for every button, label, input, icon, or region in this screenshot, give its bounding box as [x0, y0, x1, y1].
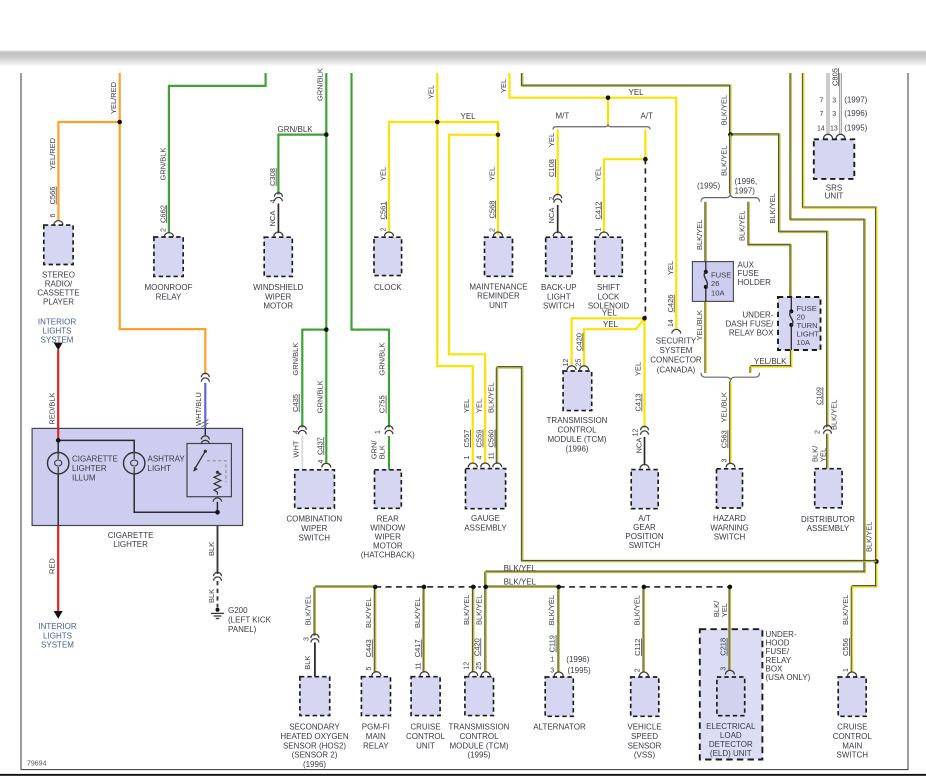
svg-text:YEL: YEL	[461, 112, 477, 121]
svg-text:BLK: BLK	[378, 445, 387, 459]
svg-text:C420: C420	[575, 333, 584, 351]
svg-text:LIGHT: LIGHT	[148, 464, 172, 473]
svg-text:ALTERNATOR: ALTERNATOR	[533, 723, 586, 732]
svg-text:(1996): (1996)	[565, 444, 588, 453]
svg-text:2: 2	[549, 197, 556, 201]
svg-text:BLK/YEL: BLK/YEL	[830, 400, 839, 430]
fuse 20 element	[789, 309, 793, 313]
svg-text:NCA: NCA	[547, 208, 556, 224]
svg-text:MOTOR: MOTOR	[263, 302, 293, 311]
svg-text:MODULE (TCM): MODULE (TCM)	[547, 435, 606, 444]
svg-text:NCA: NCA	[268, 211, 277, 227]
ground G200	[216, 608, 220, 612]
svg-text:HAZARD: HAZARD	[713, 514, 746, 523]
component stereo radio cassette player	[44, 225, 73, 264]
svg-text:BLK: BLK	[207, 542, 216, 556]
wire YEL branch to clock and maintenance reminder	[389, 122, 498, 235]
svg-text:C108: C108	[547, 159, 556, 177]
node junction YEL at clock trunk	[435, 120, 440, 125]
svg-text:BLK/YEL: BLK/YEL	[462, 595, 471, 625]
svg-text:ASSEMBLY: ASSEMBLY	[464, 523, 507, 532]
svg-text:WINDOW: WINDOW	[370, 524, 406, 533]
svg-text:MOTOR: MOTOR	[373, 542, 403, 551]
svg-text:C563: C563	[720, 430, 729, 448]
component under-hood fuse relay box (USA only)	[700, 629, 763, 759]
svg-text:BLK/YEL: BLK/YEL	[695, 220, 704, 250]
wire YEL main trunk upper right	[510, 73, 677, 329]
wire BLK cigarette lighter ground	[217, 526, 219, 575]
svg-text:7: 7	[820, 97, 824, 104]
svg-text:(1995): (1995)	[568, 666, 591, 675]
svg-text:C412: C412	[593, 202, 602, 220]
svg-text:BLK/YEL: BLK/YEL	[487, 383, 496, 413]
svg-text:INTERIOR: INTERIOR	[38, 622, 76, 631]
svg-text:3: 3	[832, 97, 836, 104]
connector C420 TCM 1995 pins	[469, 672, 478, 676]
wire BLK lamp bus inside box	[57, 440, 59, 452]
svg-text:GRN/BLK: GRN/BLK	[316, 68, 325, 101]
svg-text:C413: C413	[634, 394, 643, 412]
svg-text:VEHICLE: VEHICLE	[627, 723, 661, 732]
wire dashed bus segment 4	[644, 586, 730, 588]
svg-text:SWITCH: SWITCH	[714, 533, 746, 542]
svg-text:BLK: BLK	[207, 589, 216, 603]
svg-text:SHIFT: SHIFT	[597, 283, 620, 292]
svg-text:YEL: YEL	[487, 167, 496, 181]
wire BLK/YEL right trunk 1 to cruise main switch	[803, 73, 876, 562]
svg-text:BLK/YEL: BLK/YEL	[413, 598, 422, 628]
svg-text:SENSOR (HOS2): SENSOR (HOS2)	[283, 741, 346, 750]
svg-text:GRN/BLK: GRN/BLK	[378, 343, 387, 376]
svg-text:C437: C437	[315, 437, 324, 455]
svg-text:PGM-FI: PGM-FI	[362, 723, 390, 732]
svg-text:YEL/BLK: YEL/BLK	[720, 392, 729, 422]
wire WHT combination wiper switch pin 4	[301, 436, 303, 470]
brace M/T A/T	[553, 124, 650, 130]
svg-text:GRN/BLK: GRN/BLK	[158, 148, 167, 181]
svg-text:REMINDER: REMINDER	[477, 292, 520, 301]
svg-text:WIPER: WIPER	[265, 292, 291, 301]
svg-text:DISTRIBUTOR: DISTRIBUTOR	[801, 515, 855, 524]
svg-text:C662: C662	[158, 205, 167, 223]
node junction YEL A/T branch	[643, 157, 648, 162]
wire YEL to TCM 1996 pin 25	[584, 318, 644, 366]
svg-text:CASSETTE: CASSETTE	[37, 289, 79, 298]
svg-text:C566: C566	[48, 187, 57, 205]
svg-text:YEL: YEL	[602, 309, 618, 318]
wire YEL to TCM 1996 pin 12	[572, 318, 645, 366]
svg-text:BLK/YEL: BLK/YEL	[504, 578, 537, 587]
svg-text:C556: C556	[841, 638, 850, 656]
svg-text:WHT/BLU: WHT/BLU	[194, 392, 203, 426]
node junction YEL trunk	[606, 95, 611, 100]
wire GRN/BLK trunk 2 to rear window wiper motor	[352, 73, 390, 428]
wire GRN/BLK rear window wiper motor pin 1	[388, 436, 390, 470]
wire BLK/YEL drop ELD unit	[729, 587, 731, 671]
svg-text:RED/BLK: RED/BLK	[48, 392, 57, 424]
wire BLK secondary HOS2 pin 3	[314, 643, 316, 677]
wire YEL A/T branch	[644, 130, 646, 160]
svg-text:YEL: YEL	[378, 167, 387, 181]
component aux fuse holder box	[692, 262, 733, 302]
lamp cigarette lighter illumination	[48, 453, 69, 474]
component vehicle speed sensor	[631, 677, 659, 716]
svg-text:ASHTRAY: ASHTRAY	[148, 455, 186, 464]
svg-text:LIGHT: LIGHT	[547, 292, 571, 301]
component secondary heated oxygen sensor	[300, 677, 330, 716]
svg-text:13: 13	[830, 125, 838, 132]
svg-text:2: 2	[160, 228, 167, 232]
svg-text:C561: C561	[378, 202, 387, 220]
wire BLK/YEL top trunk	[522, 73, 730, 135]
svg-text:1: 1	[375, 430, 382, 434]
connector C417 cruise unit pin	[420, 672, 429, 676]
svg-text:YEL: YEL	[499, 79, 508, 93]
wire BLK/YEL gauge pin 11 run	[497, 368, 876, 562]
svg-text:3: 3	[550, 667, 554, 674]
wire BLK/YEL to distributor assembly	[730, 135, 827, 428]
svg-text:RELAY: RELAY	[363, 741, 389, 750]
svg-text:MODULE (TCM): MODULE (TCM)	[449, 741, 508, 750]
svg-text:M/T: M/T	[556, 111, 570, 120]
svg-text:LOAD: LOAD	[720, 731, 742, 740]
wire dashed bus segment 3	[559, 586, 644, 588]
svg-text:YEL: YEL	[819, 448, 828, 462]
svg-text:BLK/YEL: BLK/YEL	[720, 95, 729, 125]
svg-text:BLK/YEL: BLK/YEL	[865, 522, 874, 552]
svg-text:(1996): (1996)	[844, 109, 867, 118]
node bus junction	[373, 585, 378, 590]
svg-text:YEL/BLK: YEL/BLK	[754, 357, 787, 366]
connector C566 stereo	[54, 221, 63, 225]
component clock	[374, 237, 402, 275]
wire crossing ticks on WHT/BLU	[202, 420, 209, 428]
svg-text:COMBINATION: COMBINATION	[286, 515, 342, 524]
svg-text:ASSEMBLY: ASSEMBLY	[807, 524, 850, 533]
svg-text:WIPER: WIPER	[375, 533, 401, 542]
svg-text:C218: C218	[719, 638, 728, 656]
svg-text:YEL: YEL	[720, 603, 729, 617]
component A/T gear position switch	[631, 470, 658, 509]
node junction YEL/RED	[117, 120, 122, 125]
wire BLK/YEL drop vehicle speed sensor	[643, 587, 645, 673]
svg-text:NCA: NCA	[634, 438, 643, 454]
arrow to interior lights system (top)	[54, 343, 63, 351]
svg-text:BLK/YEL: BLK/YEL	[474, 595, 483, 625]
svg-text:YEL: YEL	[593, 167, 602, 181]
svg-text:C435: C435	[291, 394, 300, 412]
top toolbar shadow band	[0, 51, 926, 67]
wire BLK/YEL bus solid left	[315, 586, 375, 588]
wire YEL to A/T gear position switch C413	[643, 318, 645, 428]
fuse 26 element	[704, 270, 708, 274]
connector C426 security connector end	[672, 329, 681, 333]
svg-text:MAINTENANCE: MAINTENANCE	[469, 282, 527, 291]
svg-text:11: 11	[416, 662, 423, 669]
wire RED inside cigarette lighter box	[57, 428, 59, 440]
wire BLK/YEL cruise main drop	[852, 562, 876, 673]
wire to ground junction	[216, 502, 218, 513]
connector at lighter element bottom	[213, 498, 222, 502]
svg-text:C560: C560	[487, 430, 496, 448]
svg-text:STEREO: STEREO	[42, 271, 75, 280]
component cruise control main switch	[838, 677, 866, 716]
svg-text:14: 14	[668, 319, 675, 327]
svg-text:(1995): (1995)	[467, 751, 490, 760]
svg-text:(VSS): (VSS)	[634, 751, 656, 760]
svg-text:3: 3	[832, 111, 836, 118]
svg-text:CRUISE: CRUISE	[410, 723, 440, 732]
connector C556 cruise main pin	[848, 672, 857, 676]
connector C412 shift lock	[600, 232, 609, 236]
connector C443 PGM-FI pin	[372, 672, 381, 676]
svg-text:INTERIOR: INTERIOR	[38, 318, 76, 327]
node bus junction	[556, 585, 561, 590]
node junction BLK/YEL	[728, 132, 733, 137]
svg-text:YEL: YEL	[629, 88, 645, 97]
node bus junction	[642, 585, 647, 590]
connector C662 moonroof	[164, 233, 173, 237]
svg-text:BLK/YEL: BLK/YEL	[768, 193, 777, 223]
svg-text:LIGHTS: LIGHTS	[43, 326, 72, 335]
component back-up light switch	[546, 237, 572, 276]
svg-text:SECURITY: SECURITY	[656, 336, 697, 345]
connector C437 combination wiper pin	[322, 463, 331, 467]
svg-text:25: 25	[476, 662, 483, 670]
wire YEL M/T branch to back-up light switch C108	[557, 130, 559, 197]
component cigarette lighter box	[32, 428, 243, 525]
svg-text:79694: 79694	[27, 761, 47, 768]
svg-text:WIPER: WIPER	[301, 524, 327, 533]
node junction RED/BLK lamp bus	[56, 438, 61, 443]
svg-text:10A: 10A	[711, 288, 725, 297]
component rear window wiper motor	[375, 470, 402, 509]
svg-text:11: 11	[489, 452, 496, 459]
svg-text:(HATCHBACK): (HATCHBACK)	[361, 551, 415, 560]
wire GRN/BLK branch to windshield wiper motor connector C308	[278, 135, 326, 195]
svg-text:4: 4	[477, 456, 484, 460]
svg-text:1: 1	[595, 228, 602, 232]
svg-text:(1996,: (1996,	[735, 177, 758, 186]
svg-text:LOCK: LOCK	[598, 292, 620, 301]
connector C435 inline	[298, 426, 306, 430]
connector C218 ELD pin	[725, 670, 734, 674]
svg-text:A/T: A/T	[641, 111, 654, 120]
node bus junction	[728, 585, 733, 590]
svg-text:YEL: YEL	[462, 399, 471, 413]
component cruise control unit	[411, 677, 440, 716]
component PGM-FI main relay	[361, 677, 390, 716]
svg-text:CIGARETTE: CIGARETTE	[72, 455, 118, 464]
wire BLK/YEL bus to secondary HOS2	[314, 587, 316, 636]
svg-text:LIGHTER: LIGHTER	[72, 464, 107, 473]
svg-text:CONTROL: CONTROL	[833, 732, 873, 741]
svg-text:2: 2	[489, 228, 496, 232]
svg-text:(USA ONLY): (USA ONLY)	[766, 673, 811, 682]
svg-text:BLK/YEL: BLK/YEL	[364, 598, 373, 628]
wire BLK/YEL drop alternator	[558, 587, 560, 673]
svg-text:2: 2	[380, 228, 387, 232]
connector C420 TCM 1996 pins	[567, 366, 576, 370]
svg-text:C559: C559	[475, 430, 484, 448]
svg-text:BACK-UP: BACK-UP	[541, 283, 577, 292]
svg-text:(LEFT KICK: (LEFT KICK	[228, 615, 272, 624]
svg-text:SYSTEM: SYSTEM	[41, 641, 74, 650]
wire dashed bus segment 1	[375, 586, 473, 588]
wire YEL/BLK to hazard warning switch	[729, 382, 731, 464]
connector back-up pin	[553, 232, 562, 236]
wire BLK/YEL drop cruise control unit	[423, 587, 425, 673]
svg-text:GEAR: GEAR	[633, 523, 656, 532]
svg-text:YEL: YEL	[666, 261, 675, 275]
svg-text:GAUGE: GAUGE	[471, 514, 500, 523]
connector C119 alternator pin	[554, 672, 563, 676]
arrow to interior lights system (bottom)	[54, 611, 63, 619]
svg-text:GRN/BLK: GRN/BLK	[315, 380, 324, 413]
node junction YEL at maintenance drop	[496, 133, 501, 138]
wire BLK/YEL 1996-1997 branch to fuse 20	[749, 202, 791, 297]
connector BLK inline above G200	[214, 572, 222, 576]
svg-text:2: 2	[635, 668, 642, 672]
svg-text:3: 3	[721, 667, 728, 671]
svg-text:26: 26	[711, 279, 719, 288]
svg-text:6: 6	[50, 214, 57, 218]
svg-text:SPEED: SPEED	[631, 732, 658, 741]
svg-text:C755: C755	[378, 395, 387, 413]
svg-text:YEL: YEL	[603, 320, 619, 329]
connector A/T gear pin	[640, 464, 649, 468]
svg-text:MOONROOF: MOONROOF	[145, 283, 193, 292]
svg-text:12: 12	[632, 429, 639, 437]
svg-text:4: 4	[270, 199, 277, 203]
svg-text:GRN/BLK: GRN/BLK	[278, 125, 314, 134]
node bus junction	[483, 585, 488, 590]
connector gauge pins 1,4,11	[468, 463, 477, 467]
svg-text:C557: C557	[462, 430, 471, 448]
svg-text:ELECTRICAL: ELECTRICAL	[706, 722, 756, 731]
svg-text:YEL/BLK: YEL/BLK	[695, 310, 704, 340]
svg-text:RADIO/: RADIO/	[45, 280, 73, 289]
connector C568 maintenance	[494, 232, 503, 236]
connector HOS2 inline	[311, 634, 319, 638]
svg-text:CIGARETTE: CIGARETTE	[108, 531, 154, 540]
svg-text:PANEL): PANEL)	[228, 625, 257, 634]
component windshield wiper motor	[264, 237, 292, 276]
connector C308 inline	[274, 193, 282, 197]
svg-text:YEL: YEL	[427, 85, 436, 99]
component hazard warning switch	[717, 469, 743, 508]
svg-text:5: 5	[366, 667, 373, 671]
component maintenance reminder unit	[485, 237, 513, 276]
svg-text:(SENSOR 2): (SENSOR 2)	[292, 751, 338, 760]
svg-text:WINDSHIELD: WINDSHIELD	[253, 283, 303, 292]
svg-text:BLK/YEL: BLK/YEL	[720, 146, 729, 176]
svg-text:WARNING: WARNING	[710, 523, 748, 532]
connector C108 inline	[554, 194, 562, 198]
wire through fuse 26	[705, 262, 707, 272]
wire RED/BLK interior lights to cigarette lighter	[57, 350, 59, 441]
svg-text:LIGHTS: LIGHTS	[43, 631, 72, 640]
wire NCA back-up light switch	[557, 205, 559, 233]
svg-text:1: 1	[843, 668, 850, 672]
svg-text:HOLDER: HOLDER	[738, 278, 772, 287]
wire BLK/YEL drop to year brace	[729, 135, 731, 194]
wire GRN/BLK trunk 1 (windshield wiper / combination wiper)	[325, 73, 327, 464]
svg-text:UNIT: UNIT	[825, 192, 844, 201]
wire BLK/YEL drop TCM 1995 pin 12	[472, 587, 474, 673]
connector C109 inline	[824, 425, 832, 429]
node junction BLK/YEL right	[874, 559, 879, 564]
svg-text:(1997): (1997)	[844, 96, 867, 105]
svg-text:SWITCH: SWITCH	[299, 533, 331, 542]
wire WHT SRS pin 14	[827, 73, 830, 134]
svg-text:12: 12	[464, 662, 471, 670]
svg-text:BLK/YEL: BLK/YEL	[841, 595, 850, 625]
svg-text:POSITION: POSITION	[625, 532, 663, 541]
wire through fuse 20	[790, 297, 792, 311]
wire GRN/BLK moonroof relay	[169, 73, 266, 233]
lamp ashtray light	[124, 453, 145, 474]
svg-text:1997): 1997)	[735, 187, 756, 196]
svg-text:SWITCH: SWITCH	[629, 541, 661, 550]
svg-text:4: 4	[318, 460, 325, 464]
svg-text:SECONDARY: SECONDARY	[289, 723, 340, 732]
svg-text:BLK/YEL: BLK/YEL	[738, 211, 747, 241]
node bus junction	[422, 585, 427, 590]
connector C112 VSS pin	[639, 672, 648, 676]
svg-text:A/T: A/T	[638, 514, 651, 523]
wire NCA A/T gear position switch	[644, 437, 646, 465]
svg-text:(ELD) UNIT: (ELD) UNIT	[710, 749, 752, 758]
svg-text:UNIT: UNIT	[416, 741, 435, 750]
svg-text:3: 3	[722, 459, 729, 463]
svg-text:DASH FUSE/: DASH FUSE/	[725, 319, 774, 328]
node junction BLK ground bus	[215, 510, 220, 515]
node junction YEL at TCM branch	[642, 316, 647, 321]
component moonroof relay	[154, 237, 183, 276]
svg-text:SWITCH: SWITCH	[837, 751, 869, 760]
svg-text:SYSTEM: SYSTEM	[41, 335, 74, 344]
brace merge YEL/BLK	[701, 373, 760, 382]
svg-text:MAIN: MAIN	[366, 732, 386, 741]
connector C561 clock	[385, 232, 394, 236]
svg-text:C420: C420	[472, 638, 481, 656]
svg-text:FUSE: FUSE	[711, 270, 731, 279]
svg-text:MAIN: MAIN	[842, 741, 862, 750]
svg-text:C109: C109	[815, 387, 824, 405]
svg-text:BLK/YEL: BLK/YEL	[504, 564, 537, 573]
svg-text:CONTROL: CONTROL	[557, 426, 597, 435]
svg-text:YEL/RED: YEL/RED	[109, 81, 118, 114]
node bus junction	[471, 585, 476, 590]
svg-text:C805: C805	[830, 68, 839, 86]
bottom separator line	[0, 774, 926, 776]
connector at lighter element top	[204, 428, 206, 436]
connector C563 hazard pin	[726, 463, 735, 467]
svg-text:(1996): (1996)	[566, 655, 589, 664]
svg-text:25: 25	[575, 359, 582, 367]
svg-text:CONTROL: CONTROL	[406, 732, 446, 741]
wire BLK/YEL right trunk 2	[486, 73, 865, 587]
svg-text:CONNECTOR: CONNECTOR	[650, 356, 702, 365]
svg-text:FUSE: FUSE	[738, 269, 759, 278]
svg-text:C426: C426	[666, 295, 675, 313]
wire YEL/BLK from fuse 20	[751, 350, 792, 373]
svg-text:CRUISE: CRUISE	[837, 723, 867, 732]
connector windshield wiper pin	[274, 232, 283, 236]
connector YEL/RED to WHT/BLU inline	[201, 373, 209, 377]
svg-text:BLK/YEL: BLK/YEL	[633, 595, 642, 625]
